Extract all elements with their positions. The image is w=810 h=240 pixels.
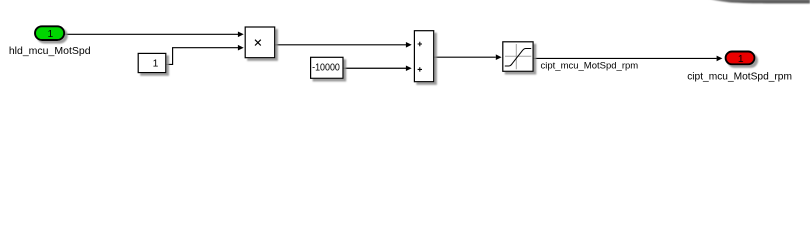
svg-text:-10000: -10000 bbox=[312, 62, 340, 73]
constant C1 value 1 bbox=[138, 53, 166, 72]
svg-text:hld_mcu_MotSpd: hld_mcu_MotSpd bbox=[9, 45, 91, 57]
wire product to sum bbox=[275, 44, 406, 46]
outport 1 cipt_mcu_MotSpd_rpm bbox=[726, 52, 755, 65]
wire saturation to outport bbox=[534, 57, 717, 59]
saturation block bbox=[503, 42, 533, 72]
svg-text:cipt_mcu_MotSpd_rpm: cipt_mcu_MotSpd_rpm bbox=[687, 71, 792, 82]
sum block bbox=[414, 31, 433, 82]
svg-text:1: 1 bbox=[738, 54, 744, 65]
svg-text:1: 1 bbox=[153, 59, 159, 70]
wire constant C1 to product (jog up) bbox=[166, 48, 238, 65]
wire sum to saturation bbox=[434, 56, 496, 58]
constant C2 value -10000 bbox=[311, 57, 343, 78]
multiply symbol bbox=[255, 40, 261, 46]
product block bbox=[245, 27, 275, 58]
wire inport to product bbox=[65, 33, 238, 35]
plus sign input 2 bbox=[418, 67, 422, 71]
saturation curve bbox=[505, 49, 531, 67]
inport 1 hld_mcu_MotSpd bbox=[35, 26, 64, 40]
svg-text:1: 1 bbox=[48, 29, 54, 40]
svg-text:cipt_mcu_MotSpd_rpm: cipt_mcu_MotSpd_rpm bbox=[541, 61, 639, 72]
plus sign input 1 bbox=[418, 42, 422, 46]
saturation axes bbox=[505, 44, 531, 69]
wire constant C2 to sum bbox=[343, 67, 406, 69]
window-edge smudge top right bbox=[707, 0, 810, 3]
